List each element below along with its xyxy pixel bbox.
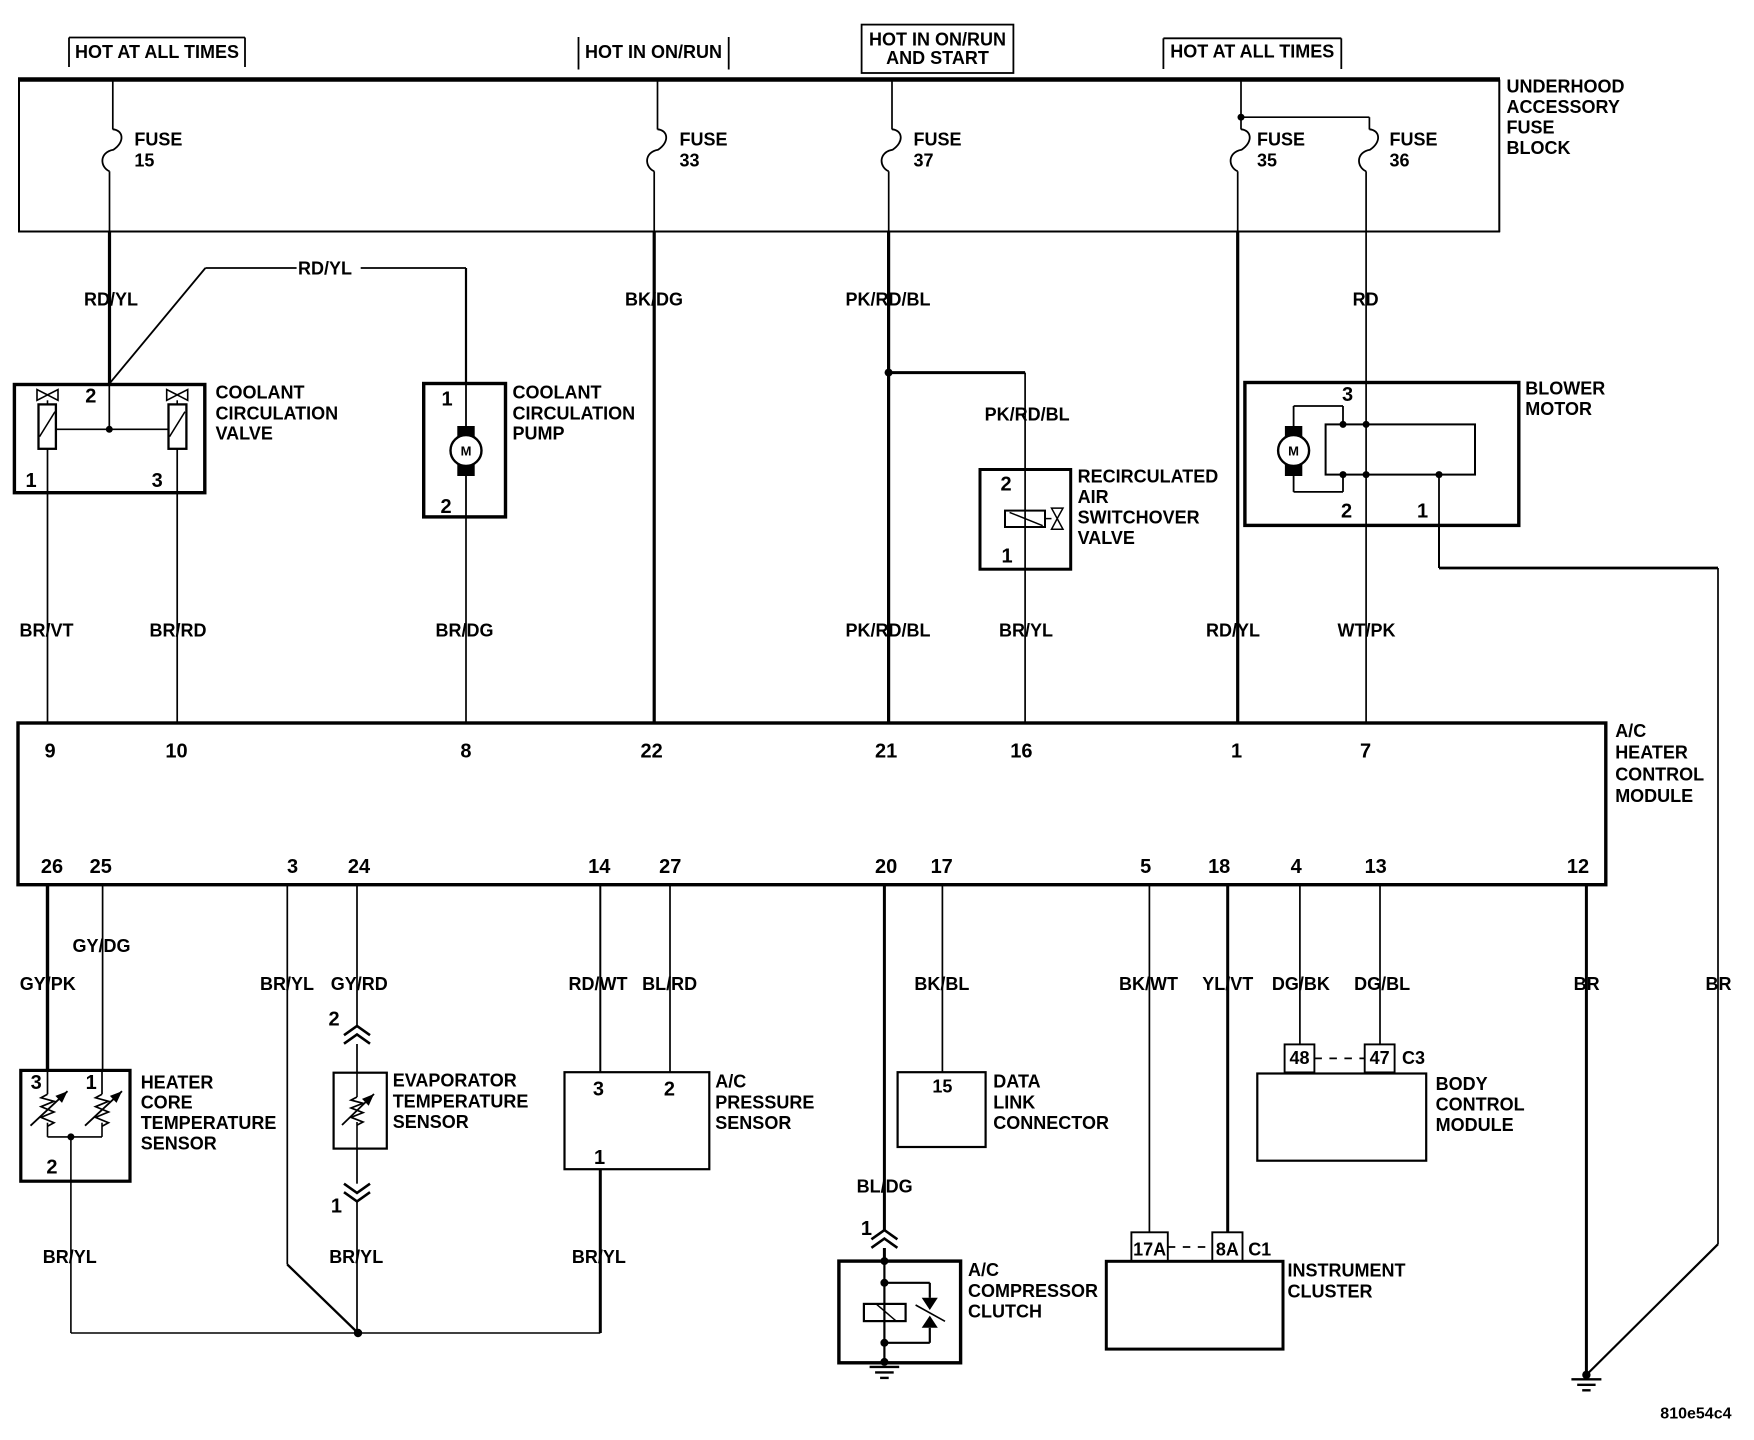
svg-text:M: M	[461, 444, 472, 459]
svg-text:HOT IN ON/RUN: HOT IN ON/RUN	[869, 29, 1006, 49]
svg-text:BR/YL: BR/YL	[329, 1247, 383, 1267]
svg-text:2: 2	[664, 1079, 675, 1101]
svg-text:3: 3	[1342, 384, 1353, 406]
svg-text:13: 13	[1365, 856, 1387, 878]
svg-text:PK/RD/BL: PK/RD/BL	[846, 621, 931, 641]
svg-text:RECIRCULATED: RECIRCULATED	[1078, 466, 1219, 486]
svg-text:16: 16	[1010, 740, 1032, 762]
wire YL/VT module pin18 to instrument cluster 8A	[1226, 885, 1229, 1233]
recirculated air switchover valve	[980, 470, 1071, 570]
svg-text:CIRCULATION: CIRCULATION	[513, 403, 636, 423]
wire GY/DG module pin25 to heater core sensor pin1	[102, 885, 104, 1071]
svg-text:24: 24	[348, 856, 371, 878]
svg-text:8: 8	[460, 740, 471, 762]
wire BL/DG module pin20 to compressor clutch	[883, 885, 886, 1230]
wire PK/RD/BL branch to switchover valve pin2	[1024, 373, 1026, 470]
svg-text:15: 15	[932, 1077, 952, 1097]
ground node (right)	[1582, 1371, 1590, 1379]
svg-text:1: 1	[1001, 545, 1012, 567]
svg-text:10: 10	[165, 740, 187, 762]
switchover valve internal wire	[1024, 470, 1026, 570]
svg-text:26: 26	[41, 856, 63, 878]
wire evaporator sensor to inline connector 1	[356, 1149, 358, 1184]
svg-text:BK/DG: BK/DG	[625, 290, 683, 310]
svg-text:MODULE: MODULE	[1436, 1115, 1514, 1135]
node fuse35/36 branch	[1238, 114, 1245, 121]
svg-text:21: 21	[875, 740, 897, 762]
svg-text:SENSOR: SENSOR	[141, 1133, 217, 1153]
svg-text:1: 1	[441, 389, 452, 411]
svg-text:17: 17	[931, 856, 953, 878]
svg-text:CORE: CORE	[141, 1093, 193, 1113]
connector C3 dashed link	[1314, 1057, 1364, 1059]
svg-text:BLOCK: BLOCK	[1507, 138, 1571, 158]
connector C1 dashed link	[1168, 1246, 1213, 1248]
svg-text:BR/YL: BR/YL	[572, 1247, 626, 1267]
wire GY/PK module pin26 to heater core sensor pin3	[46, 885, 49, 1071]
switchover valve solenoid	[1005, 511, 1045, 527]
svg-text:RD/WT: RD/WT	[569, 974, 628, 994]
svg-text:C3: C3	[1402, 1048, 1425, 1068]
svg-text:CLUTCH: CLUTCH	[968, 1302, 1042, 1322]
svg-text:1: 1	[1231, 740, 1242, 762]
wire BR/RD valve pin3 to module pin10	[176, 493, 178, 723]
svg-text:BLOWER: BLOWER	[1525, 379, 1605, 399]
svg-text:1: 1	[25, 470, 36, 492]
svg-text:VALVE: VALVE	[216, 424, 273, 444]
svg-text:VALVE: VALVE	[1078, 528, 1135, 548]
wire BK/BL module pin17 to data link connector pin15	[941, 885, 943, 1072]
splice node BR/YL	[354, 1329, 362, 1337]
svg-text:BK/WT: BK/WT	[1119, 974, 1178, 994]
wire BR/DG pump pin2 to module pin8	[465, 517, 467, 723]
wire BR module pin12 to ground	[1585, 885, 1588, 1375]
svg-text:SWITCHOVER: SWITCHOVER	[1078, 508, 1200, 528]
wire WT/PK blower pin2 to module pin7	[1365, 475, 1367, 723]
svg-text:35: 35	[1257, 151, 1277, 171]
svg-text:15: 15	[134, 151, 154, 171]
a/c compressor clutch	[839, 1261, 961, 1363]
svg-text:HEATER: HEATER	[1615, 743, 1688, 763]
svg-text:FUSE: FUSE	[134, 130, 182, 150]
svg-text:3: 3	[31, 1072, 42, 1094]
svg-text:8A: 8A	[1216, 1239, 1239, 1259]
wire BK/WT module pin5 to instrument cluster 17A	[1148, 885, 1150, 1233]
svg-text:2: 2	[440, 496, 451, 518]
svg-text:3: 3	[152, 470, 163, 492]
power label HOT IN ON/RUN AND START	[862, 25, 1014, 73]
underhood accessory fuse block	[18, 77, 1500, 82]
svg-text:CONTROL: CONTROL	[1436, 1094, 1525, 1114]
svg-text:48: 48	[1289, 1048, 1309, 1068]
svg-text:36: 36	[1390, 151, 1410, 171]
wire BR/YL pressure sensor pin1 to splice	[599, 1169, 602, 1333]
ground (right)	[1571, 1378, 1601, 1380]
wire BK/DG fuse33 to module pin22	[653, 232, 656, 724]
blower motor junction nodes	[1340, 421, 1347, 428]
svg-text:HEATER: HEATER	[141, 1072, 214, 1092]
wire BR diagonal to ground	[1586, 1244, 1718, 1375]
svg-text:UNDERHOOD: UNDERHOOD	[1507, 76, 1625, 96]
wire DG/BK module pin4 to BCM 48	[1299, 885, 1301, 1045]
svg-text:9: 9	[44, 740, 55, 762]
inline connector pin 1 (evaporator)	[344, 1184, 370, 1193]
svg-text:3: 3	[593, 1079, 604, 1101]
svg-text:BODY: BODY	[1436, 1074, 1488, 1094]
svg-text:A/C: A/C	[715, 1072, 746, 1092]
svg-text:GY/RD: GY/RD	[331, 974, 388, 994]
fuse F35	[1240, 80, 1242, 130]
coolant circulation pump	[424, 384, 506, 517]
wire GY/RD module pin24 to evaporator sensor	[356, 885, 358, 1026]
svg-text:PRESSURE: PRESSURE	[715, 1092, 814, 1112]
svg-text:25: 25	[90, 856, 112, 878]
wire blower pin1 to right side BR run	[1438, 525, 1440, 568]
connector C1 cavity 17A	[1131, 1232, 1167, 1261]
wire RD/YL fuse35 to module pin1	[1236, 232, 1239, 724]
svg-text:2: 2	[1000, 474, 1011, 496]
instrument cluster	[1106, 1261, 1283, 1349]
svg-text:47: 47	[1370, 1048, 1390, 1068]
svg-text:COOLANT: COOLANT	[513, 383, 602, 403]
svg-text:COMPRESSOR: COMPRESSOR	[968, 1281, 1098, 1301]
coolant circulation valve	[14, 385, 204, 493]
blower motor internal wiring	[1293, 406, 1295, 426]
wire RD/YL fuse15 to coolant circulation valve pin2	[108, 232, 111, 385]
connector C3 cavity 47	[1365, 1044, 1395, 1072]
wire RD/YL link valve to pump pin1	[110, 268, 206, 384]
switchover valve nozzle symbol	[1045, 518, 1052, 520]
svg-text:3: 3	[287, 856, 298, 878]
svg-text:2: 2	[1341, 501, 1352, 523]
svg-text:FUSE: FUSE	[1390, 130, 1438, 150]
svg-text:CLUSTER: CLUSTER	[1288, 1282, 1373, 1302]
svg-text:HOT AT ALL TIMES: HOT AT ALL TIMES	[1170, 42, 1334, 62]
clutch relay coil	[864, 1304, 906, 1321]
svg-text:CIRCULATION: CIRCULATION	[216, 403, 339, 423]
svg-text:1: 1	[1417, 501, 1428, 523]
body control module	[1257, 1074, 1426, 1161]
svg-text:BR/VT: BR/VT	[20, 621, 74, 641]
data link connector	[898, 1072, 986, 1147]
svg-text:PK/RD/BL: PK/RD/BL	[985, 405, 1070, 425]
clutch diode branch	[884, 1282, 929, 1284]
svg-text:DATA: DATA	[993, 1072, 1040, 1092]
clutch internal wire	[883, 1261, 885, 1362]
svg-text:BR: BR	[1574, 974, 1600, 994]
svg-text:RD/YL: RD/YL	[1206, 621, 1260, 641]
svg-text:1: 1	[861, 1218, 872, 1240]
svg-text:DG/BK: DG/BK	[1272, 974, 1330, 994]
svg-text:GY/PK: GY/PK	[20, 974, 76, 994]
svg-text:BR: BR	[1706, 974, 1732, 994]
svg-text:27: 27	[659, 856, 681, 878]
power label HOT AT ALL TIMES (right)	[1163, 37, 1341, 39]
svg-text:TEMPERATURE: TEMPERATURE	[393, 1091, 529, 1111]
svg-text:BR/YL: BR/YL	[260, 974, 314, 994]
connector C3 cavity 48	[1285, 1044, 1315, 1072]
svg-text:37: 37	[914, 151, 934, 171]
svg-text:22: 22	[640, 740, 662, 762]
svg-text:AIR: AIR	[1078, 487, 1109, 507]
svg-text:2: 2	[85, 386, 96, 408]
svg-text:FUSE: FUSE	[1257, 130, 1305, 150]
svg-text:CONTROL: CONTROL	[1615, 765, 1704, 785]
svg-text:1: 1	[594, 1147, 605, 1169]
svg-text:GY/DG: GY/DG	[72, 936, 130, 956]
svg-text:5: 5	[1140, 856, 1151, 878]
svg-text:INSTRUMENT: INSTRUMENT	[1288, 1261, 1406, 1281]
ground (compressor clutch)	[870, 1366, 900, 1368]
fuse F37	[891, 80, 893, 130]
svg-text:BR/YL: BR/YL	[999, 621, 1053, 641]
svg-text:BR/RD: BR/RD	[150, 621, 207, 641]
wire BR/VT valve pin1 to module pin9	[47, 493, 49, 723]
connector C1 cavity 8A	[1212, 1232, 1242, 1261]
wire BR/YL switchover valve pin1 to module pin16	[1024, 569, 1026, 723]
svg-text:A/C: A/C	[968, 1260, 999, 1280]
blower motor	[1245, 383, 1519, 526]
valve symbol right (pin3 branch)	[167, 390, 188, 401]
fuse F36	[1368, 117, 1370, 129]
clutch junction nodes	[880, 1257, 888, 1265]
wire BR/YL splice bus	[71, 1332, 600, 1334]
power label HOT AT ALL TIMES (left)	[69, 37, 245, 39]
heater core temperature sensor	[21, 1070, 130, 1181]
wire BR/YL module pin3 to splice	[286, 885, 288, 1265]
heater core sensor thermistor left	[47, 1070, 49, 1094]
svg-text:33: 33	[680, 151, 700, 171]
svg-text:1: 1	[86, 1072, 97, 1094]
svg-text:PUMP: PUMP	[513, 424, 565, 444]
svg-text:7: 7	[1360, 740, 1371, 762]
svg-text:BR/YL: BR/YL	[43, 1247, 97, 1267]
svg-text:2: 2	[328, 1009, 339, 1031]
wire DG/BL module pin13 to BCM 47	[1379, 885, 1381, 1045]
svg-text:M: M	[1288, 444, 1299, 459]
svg-text:A/C: A/C	[1615, 721, 1646, 741]
wire BR/YL heater core sensor pin2 to splice	[70, 1181, 72, 1333]
svg-text:HOT IN ON/RUN: HOT IN ON/RUN	[585, 42, 722, 62]
a/c pressure sensor	[565, 1072, 710, 1169]
svg-text:C1: C1	[1248, 1239, 1271, 1259]
valve internal wiring	[56, 428, 169, 430]
heater core sensor junction node	[67, 1133, 74, 1140]
svg-text:BR/DG: BR/DG	[436, 621, 494, 641]
svg-text:FUSE: FUSE	[1507, 117, 1555, 137]
svg-text:12: 12	[1567, 856, 1589, 878]
svg-text:MODULE: MODULE	[1615, 786, 1693, 806]
svg-text:FUSE: FUSE	[914, 130, 962, 150]
fuse F33	[657, 80, 659, 130]
wire BL/RD module pin27 to pressure sensor pin2	[669, 885, 671, 1072]
svg-text:SENSOR: SENSOR	[393, 1112, 469, 1132]
svg-text:4: 4	[1291, 856, 1303, 878]
svg-text:AND START: AND START	[886, 48, 989, 68]
svg-text:RD/YL: RD/YL	[298, 259, 352, 279]
svg-text:810e54c4: 810e54c4	[1660, 1406, 1731, 1423]
blower motor M symbol	[1285, 426, 1302, 437]
svg-text:MOTOR: MOTOR	[1525, 399, 1592, 419]
fuse F15	[112, 80, 114, 130]
svg-text:HOT AT ALL TIMES: HOT AT ALL TIMES	[75, 42, 239, 62]
svg-text:20: 20	[875, 856, 897, 878]
svg-text:TEMPERATURE: TEMPERATURE	[141, 1113, 277, 1133]
svg-text:BL/DG: BL/DG	[857, 1177, 913, 1197]
wire RD fuse36 to blower motor pin3	[1365, 232, 1367, 425]
svg-text:CONNECTOR: CONNECTOR	[993, 1113, 1109, 1133]
svg-text:ACCESSORY: ACCESSORY	[1507, 97, 1620, 117]
pump internal wire	[465, 384, 467, 427]
svg-text:2: 2	[46, 1156, 57, 1178]
a/c heater control module	[18, 723, 1606, 885]
svg-text:BL/RD: BL/RD	[642, 974, 697, 994]
svg-text:YL/VT: YL/VT	[1202, 974, 1253, 994]
heater core sensor thermistor right	[101, 1070, 103, 1094]
svg-text:18: 18	[1208, 856, 1230, 878]
svg-text:SENSOR: SENSOR	[715, 1113, 791, 1133]
wire PK/RD/BL fuse37 to module pin21	[887, 232, 890, 724]
evaporator temperature sensor	[334, 1073, 387, 1149]
node PK/RD/BL branch	[885, 369, 893, 377]
svg-text:1: 1	[331, 1195, 342, 1217]
svg-text:COOLANT: COOLANT	[216, 383, 305, 403]
svg-text:17A: 17A	[1133, 1239, 1166, 1259]
svg-text:EVAPORATOR: EVAPORATOR	[393, 1071, 517, 1091]
svg-text:WT/PK: WT/PK	[1338, 621, 1396, 641]
svg-text:LINK: LINK	[993, 1092, 1035, 1112]
svg-text:RD: RD	[1353, 290, 1379, 310]
svg-text:RD/YL: RD/YL	[84, 290, 138, 310]
svg-text:DG/BL: DG/BL	[1354, 974, 1410, 994]
svg-text:14: 14	[588, 856, 611, 878]
power label HOT IN ON/RUN	[578, 37, 580, 70]
evaporator sensor thermistor	[356, 1073, 358, 1097]
wire RD/WT module pin14 to pressure sensor pin3	[599, 885, 601, 1072]
valve symbol left (pin1 branch)	[37, 390, 58, 401]
valve junction node	[106, 426, 113, 433]
svg-text:PK/RD/BL: PK/RD/BL	[846, 290, 931, 310]
pump motor M	[457, 426, 474, 437]
svg-text:FUSE: FUSE	[680, 130, 728, 150]
